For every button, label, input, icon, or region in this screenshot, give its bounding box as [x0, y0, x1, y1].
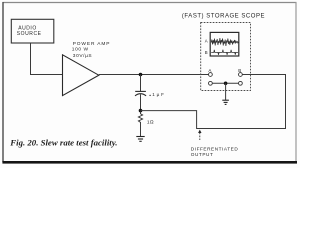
svg-text:Fig. 20. Slew rate test facili: Fig. 20. Slew rate test facility. [9, 137, 117, 147]
svg-text:(FAST) STORAGE SCOPE: (FAST) STORAGE SCOPE [182, 14, 265, 20]
svg-text:30V/µS: 30V/µS [73, 53, 92, 59]
svg-text:1µF: 1µF [152, 92, 166, 97]
svg-text:1Ω: 1Ω [147, 120, 154, 126]
svg-text:A: A [205, 39, 208, 44]
svg-text:SOURCE: SOURCE [17, 31, 42, 37]
svg-text:OUTPUT: OUTPUT [191, 152, 214, 157]
svg-text:DIFFERENTIATED: DIFFERENTIATED [191, 146, 239, 151]
svg-text:100 W: 100 W [72, 47, 89, 53]
svg-text:POWER AMP: POWER AMP [73, 41, 111, 47]
svg-text:B: B [205, 50, 208, 55]
